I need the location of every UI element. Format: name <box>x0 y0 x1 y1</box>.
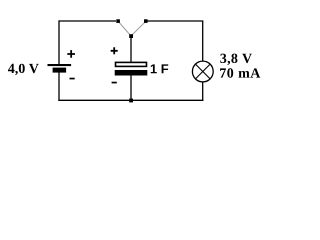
wire right vertical upper (top rail to lamp) <box>202 21 204 61</box>
battery B1 positive plate (long thin) <box>48 64 72 66</box>
battery value label 4,0 V <box>8 64 15 73</box>
wire left vertical lower (battery negative to bottom rail) <box>58 73 60 101</box>
wire capacitor branch lower (capacitor to bottom rail) <box>130 76 132 101</box>
capacitor minus polarity mark <box>112 82 117 84</box>
switch S1 left throw contact <box>116 19 120 23</box>
wire top-right horizontal (switch right contact to lamp) <box>147 20 203 22</box>
lamp L1 cross diagonal 2 <box>195 64 210 79</box>
wire bottom rail horizontal <box>58 99 203 101</box>
capacitor value label 1 F <box>151 64 157 73</box>
wire top-left horizontal (battery to switch left contact) <box>59 20 116 22</box>
capacitor C1 negative plate (solid box) <box>115 70 148 76</box>
wire left vertical upper (battery positive to top rail) <box>58 20 60 64</box>
lamp voltage label 3,8 V <box>220 54 226 63</box>
switch S1 blade left (gray, pole to left throw) <box>118 21 131 36</box>
wire capacitor branch upper (switch pole down to capacitor) <box>130 37 132 62</box>
battery B1 negative plate (short thick) <box>53 68 67 73</box>
wire right vertical lower (lamp to bottom rail) <box>202 82 204 101</box>
switch S1 right throw contact <box>144 19 148 23</box>
battery minus polarity mark <box>70 78 75 80</box>
junction node (capacitor branch joins bottom rail) <box>129 99 133 103</box>
lamp L1 bulb circle <box>192 61 213 82</box>
lamp current label 70 mA <box>220 68 226 77</box>
capacitor C1 positive plate (outlined box) <box>116 62 147 66</box>
capacitor plus polarity mark <box>111 47 118 54</box>
lamp L1 cross diagonal 1 <box>195 64 210 79</box>
battery plus polarity mark <box>67 50 75 58</box>
switch S1 pole contact <box>129 34 133 38</box>
switch S1 blade right (gray, pole to right throw) <box>131 21 146 36</box>
